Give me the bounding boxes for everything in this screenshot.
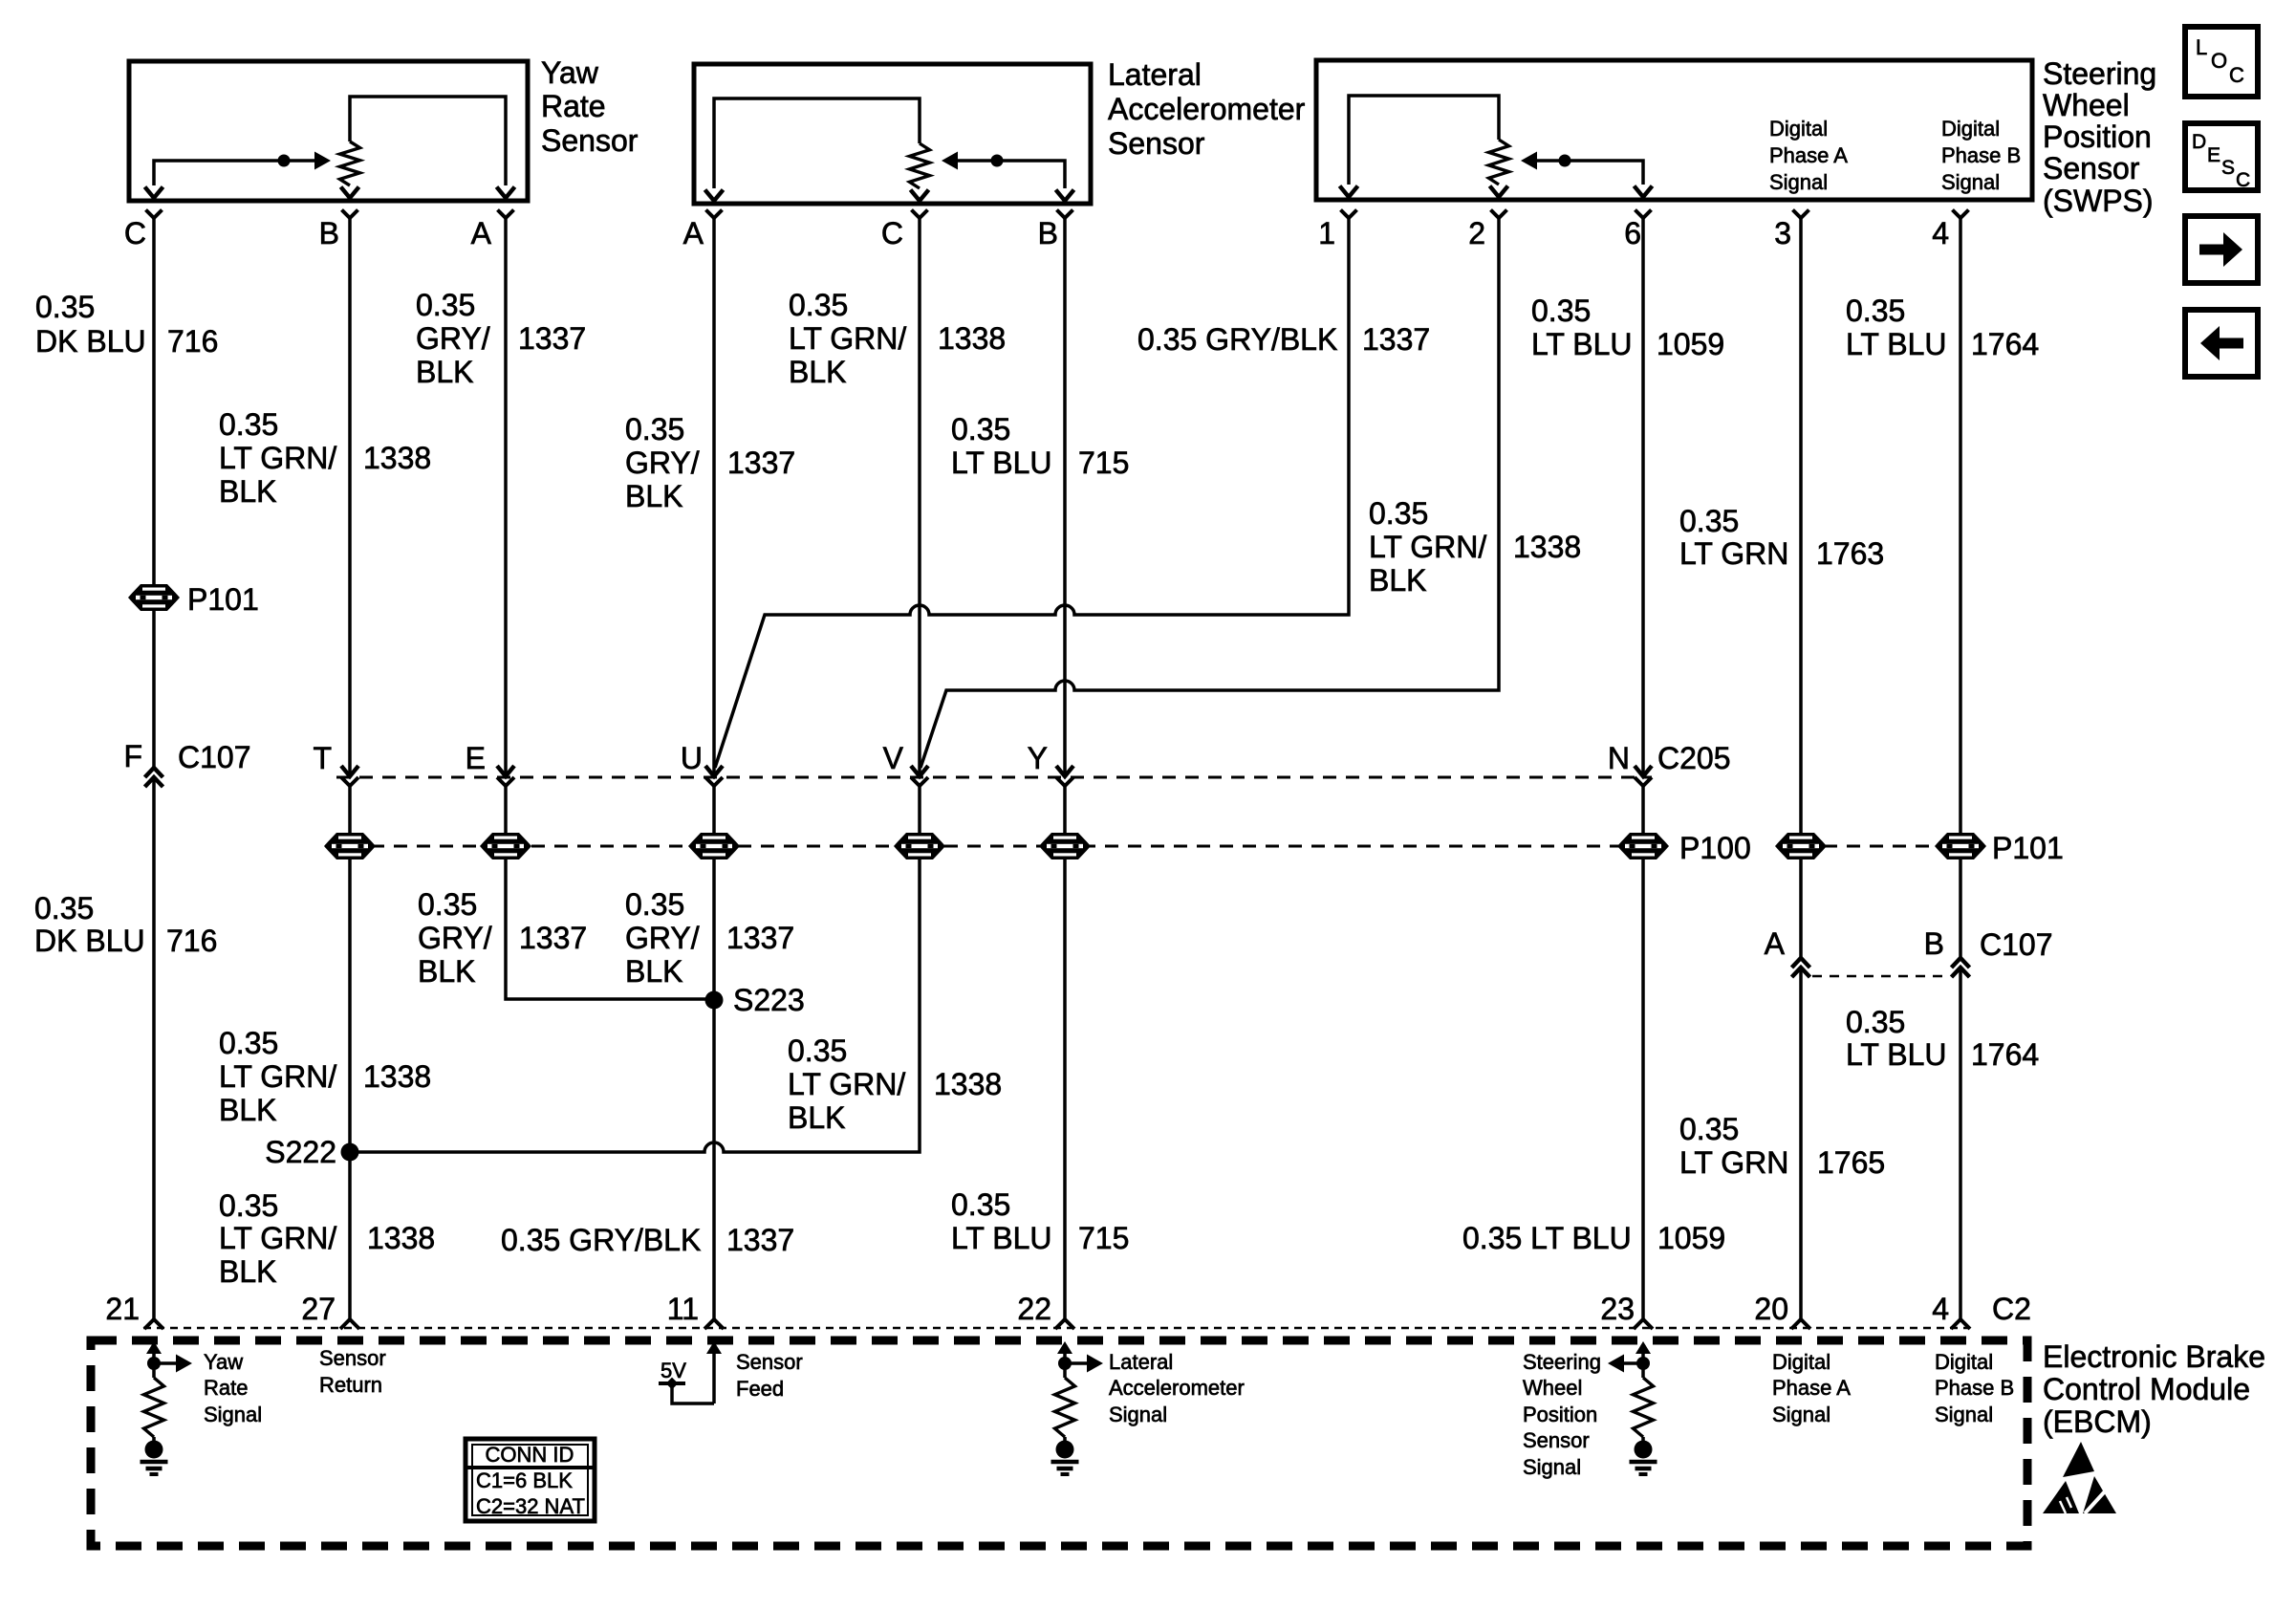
yaw pin A connector (471, 210, 514, 251)
svg-text:LT BLU: LT BLU (1531, 327, 1633, 361)
wire 1337 upper (lateral A to C205 U) (712, 218, 716, 776)
EBCM pin 23 connector (1600, 1292, 1653, 1329)
lateral sensor wiper arrow (942, 152, 958, 170)
grommet P101 lower (wire 4) (1935, 833, 1986, 859)
svg-text:B: B (1038, 216, 1058, 250)
5V terminal (659, 1378, 685, 1390)
yaw sensor wiper wire (154, 161, 314, 185)
svg-text:LT GRN: LT GRN (1679, 1145, 1788, 1180)
right-arrow legend box (2185, 216, 2258, 283)
svg-text:Signal: Signal (1772, 1403, 1830, 1426)
EBCM digital phase A signal label (1772, 1350, 1851, 1426)
svg-text:Sensor: Sensor (1523, 1428, 1590, 1452)
C107 dashed line lower (1812, 975, 1948, 978)
svg-text:C107: C107 (178, 740, 251, 774)
svg-text:27: 27 (301, 1292, 336, 1326)
svg-text:Yaw: Yaw (204, 1350, 243, 1374)
svg-text:1059: 1059 (1657, 327, 1724, 361)
EBCM pin 23 dot (1635, 1441, 1653, 1459)
svg-text:BLK: BLK (416, 355, 473, 389)
SWPS digital phase B signal label (1941, 117, 2021, 194)
svg-text:(SWPS): (SWPS) (2043, 184, 2154, 218)
grommet on wire V (894, 833, 945, 859)
wire 715 upper (lateral B to C205 Y) (1063, 218, 1067, 776)
svg-text:BLK: BLK (625, 954, 682, 989)
svg-text:Accelerometer: Accelerometer (1108, 92, 1306, 126)
svg-text:0.35: 0.35 (219, 1026, 278, 1060)
svg-text:F: F (123, 739, 142, 773)
grommet dashed line (325, 845, 1939, 848)
svg-text:CONN ID: CONN ID (486, 1443, 574, 1467)
svg-text:B: B (319, 216, 339, 250)
svg-text:O: O (2211, 49, 2227, 73)
EBCM pin 20 connector (1754, 1292, 1810, 1329)
wire 716 upper (yaw C to C107) (152, 218, 156, 767)
wire 715 lower (C205 Y to EBCM 22) (1063, 785, 1067, 1319)
EBCM pin 22 input wire (1057, 1341, 1072, 1378)
svg-text:1059: 1059 (1657, 1221, 1725, 1255)
label 0.35 LT GRN/BLK 1338 (wire 27 upper) (219, 1026, 431, 1127)
svg-text:716: 716 (166, 924, 217, 958)
svg-text:C: C (2236, 169, 2250, 191)
svg-text:P100: P100 (1679, 831, 1751, 865)
svg-text:Digital: Digital (1772, 1350, 1830, 1374)
svg-text:Digital: Digital (1935, 1350, 1993, 1374)
svg-text:715: 715 (1078, 446, 1129, 480)
svg-text:1337: 1337 (727, 446, 795, 480)
wire 1337 jumper from SWPS pin 1 to C205 U (715, 218, 1349, 768)
svg-text:E: E (466, 741, 486, 775)
svg-text:BLK: BLK (789, 355, 846, 389)
wire 1764 upper (SWPS 4 down) (1959, 218, 1962, 958)
svg-text:0.35: 0.35 (625, 412, 684, 446)
yaw rate signal label (204, 1350, 262, 1426)
svg-text:4: 4 (1932, 1292, 1949, 1326)
svg-text:0.35: 0.35 (1369, 496, 1428, 531)
svg-text:LT BLU: LT BLU (951, 1221, 1052, 1255)
svg-text:0.35 LT BLU: 0.35 LT BLU (1462, 1221, 1632, 1255)
svg-text:0.35: 0.35 (34, 891, 94, 925)
yaw sensor pin A arrow (497, 187, 515, 199)
wire 1059 lower (C205 N to EBCM 23) (1641, 785, 1645, 1319)
C205 label (1657, 741, 1731, 775)
svg-text:Sensor: Sensor (319, 1346, 386, 1370)
svg-text:C1=6 BLK: C1=6 BLK (476, 1469, 573, 1492)
svg-text:0.35: 0.35 (35, 290, 95, 324)
lateral sensor pin B arrow (1056, 190, 1074, 202)
EBCM pin 23 resistor lead (1641, 1437, 1645, 1443)
SWPS label (2043, 56, 2156, 218)
svg-text:Sensor: Sensor (2043, 151, 2140, 185)
svg-text:Phase B: Phase B (1935, 1376, 2014, 1400)
svg-text:LT GRN/: LT GRN/ (1369, 530, 1486, 564)
label 0.35 LT GRN/BLK 1338 (wire V mid) (788, 1033, 1002, 1135)
svg-text:Signal: Signal (1941, 170, 2000, 194)
svg-text:0.35: 0.35 (416, 288, 475, 322)
yaw sensor resistor (340, 141, 360, 185)
svg-text:1337: 1337 (726, 921, 794, 955)
svg-text:GRY/: GRY/ (416, 321, 490, 356)
svg-text:715: 715 (1078, 1221, 1129, 1255)
svg-text:0.35: 0.35 (219, 407, 278, 442)
svg-text:C: C (2229, 63, 2244, 87)
svg-text:Position: Position (1523, 1403, 1597, 1426)
svg-text:U: U (681, 741, 703, 775)
svg-text:1338: 1338 (938, 321, 1006, 356)
svg-text:3: 3 (1774, 216, 1791, 250)
LOC legend box (2185, 27, 2258, 97)
svg-text:0.35: 0.35 (1531, 294, 1591, 328)
svg-text:Phase A: Phase A (1772, 1376, 1851, 1400)
lateral sensor resistor arrow pin C (911, 190, 929, 202)
label 0.35 GRY/BLK 1337 (lateral A) (625, 412, 795, 513)
EBCM pin 22 connector (1017, 1292, 1074, 1329)
svg-text:V: V (883, 741, 904, 775)
svg-text:1338: 1338 (1513, 530, 1581, 564)
wire 1338 jumper from SWPS pin 2 to C205 V (921, 218, 1499, 768)
svg-text:0.35: 0.35 (951, 412, 1010, 446)
svg-text:1764: 1764 (1971, 327, 2039, 361)
lateral sensor resistor (910, 143, 930, 188)
svg-text:Steering: Steering (2043, 56, 2156, 91)
svg-text:22: 22 (1017, 1292, 1051, 1326)
EBCM pin 27 connector (301, 1292, 359, 1329)
EBCM pin 11 connector (667, 1292, 724, 1329)
EBCM dashed box (91, 1340, 2027, 1546)
svg-text:0.35: 0.35 (219, 1188, 278, 1223)
wire 1338 upper (lateral C to C205 V) (918, 218, 921, 776)
label 0.35 DK BLU 716 upper (35, 290, 218, 359)
C107 pin A connector (1792, 958, 1810, 977)
grommet on wire E (480, 833, 531, 859)
SWPS pin 1 arrow (1340, 186, 1358, 198)
svg-text:DK BLU: DK BLU (34, 924, 145, 958)
svg-text:Digital: Digital (1769, 117, 1828, 141)
svg-text:0.35: 0.35 (625, 887, 684, 922)
svg-text:GRY/: GRY/ (625, 921, 700, 955)
svg-text:C2=32 NAT: C2=32 NAT (476, 1494, 585, 1518)
svg-text:Sensor: Sensor (1108, 126, 1205, 161)
svg-text:Electronic Brake: Electronic Brake (2043, 1339, 2265, 1374)
label 0.35 LT BLU 715 (lateral B) (951, 412, 1129, 480)
EBCM digital phase B signal label (1935, 1350, 2014, 1426)
svg-text:Signal: Signal (1523, 1455, 1581, 1479)
svg-text:0.35: 0.35 (789, 288, 848, 322)
C107 pin B label (1924, 926, 2053, 962)
svg-text:Wheel: Wheel (2043, 88, 2130, 122)
svg-text:0.35 GRY/BLK: 0.35 GRY/BLK (1137, 322, 1337, 357)
svg-text:Position: Position (2043, 120, 2152, 154)
SWPS wiper arrow (1521, 152, 1537, 170)
grommet P101 upper (wire 716) (128, 584, 180, 611)
svg-text:0.35: 0.35 (418, 887, 477, 922)
svg-text:0.35: 0.35 (1679, 1112, 1739, 1146)
EBCM label (2043, 1339, 2265, 1439)
C2 label (1992, 1292, 2031, 1326)
C107 connector pin F (145, 768, 163, 787)
lateral accelerometer sensor box (694, 64, 1091, 204)
svg-text:1338: 1338 (934, 1067, 1002, 1101)
label 0.35 LT GRN/BLK 1338 (SWPS 2) (1369, 496, 1581, 598)
svg-text:BLK: BLK (219, 1254, 276, 1289)
grommet on wire U (688, 833, 740, 859)
C205 dashed line (336, 776, 1652, 779)
lateral sensor pin A arrow (705, 190, 724, 202)
svg-text:S223: S223 (733, 983, 805, 1017)
svg-text:LT BLU: LT BLU (1846, 327, 1947, 361)
svg-text:21: 21 (105, 1292, 140, 1326)
label 0.35 LT BLU 1764 lower (wire 4) (1846, 1005, 2039, 1072)
EBCM pin 21 connector (105, 1292, 163, 1329)
SWPS inner hat wire (1349, 96, 1499, 185)
EBCM pin 22 resistor lead (1063, 1437, 1067, 1443)
svg-text:C: C (881, 216, 903, 250)
svg-text:1764: 1764 (1971, 1037, 2039, 1072)
label 0.35 LT BLU 1059 (wire 23) (1462, 1221, 1725, 1255)
svg-text:S: S (2221, 157, 2235, 179)
svg-text:(EBCM): (EBCM) (2043, 1404, 2152, 1439)
label 0.35 LT GRN/BLK 1338 (lateral C) (789, 288, 1006, 389)
wire 1059 upper (SWPS 6 to C205 N) (1641, 218, 1645, 776)
svg-text:1337: 1337 (1362, 322, 1430, 357)
label 0.35 DK BLU 716 lower (34, 891, 217, 958)
yaw rate sensor label (541, 55, 639, 158)
label 0.35 LT BLU 1059 (SWPS 6) (1531, 294, 1724, 361)
svg-text:2: 2 (1468, 216, 1485, 250)
C107 pin B connector (1952, 958, 1970, 977)
SWPS pin 6 connector (1624, 210, 1651, 251)
svg-text:Return: Return (319, 1373, 382, 1397)
C107 pin F label (123, 739, 250, 774)
EBCM pin 21 resistor (144, 1378, 164, 1437)
lateral sensor wiper dot (991, 155, 1004, 167)
EBCM pin 23 input wire (1635, 1341, 1651, 1378)
svg-text:C: C (124, 216, 146, 250)
label 0.35 GRY/BLK 1337 (wire U mid) (625, 887, 794, 989)
EBCM pin 23 resistor (1634, 1378, 1654, 1437)
svg-text:Signal: Signal (1935, 1403, 1993, 1426)
svg-text:0.35 GRY/BLK: 0.35 GRY/BLK (501, 1223, 701, 1257)
svg-text:BLK: BLK (219, 474, 276, 509)
svg-text:Sensor: Sensor (736, 1350, 803, 1374)
svg-text:Wheel: Wheel (1523, 1376, 1582, 1400)
svg-text:716: 716 (167, 324, 218, 359)
EBCM pin 22 ground (1051, 1462, 1079, 1474)
svg-text:1765: 1765 (1817, 1145, 1885, 1180)
grommet P100 label (1679, 831, 1751, 865)
svg-text:LT BLU: LT BLU (951, 446, 1052, 480)
DESC legend box (2185, 123, 2258, 191)
svg-text:Sensor: Sensor (541, 123, 639, 158)
SWPS resistor (1489, 140, 1509, 185)
EBCM pin 21 dot (145, 1441, 163, 1459)
svg-text:BLK: BLK (1369, 563, 1426, 598)
svg-text:S222: S222 (265, 1135, 336, 1169)
C205 pin V connector (883, 741, 928, 786)
svg-text:1: 1 (1318, 216, 1335, 250)
steering wheel position sensor box (1316, 60, 2032, 200)
SWPS pin 4 connector (1932, 210, 1968, 251)
EBCM pin 21 resistor lead (152, 1437, 156, 1443)
svg-text:Lateral: Lateral (1108, 57, 1202, 92)
SWPS pin 6 arrow (1635, 186, 1653, 198)
yaw sensor wiper arrow (314, 152, 331, 170)
yaw sensor wiper dot (278, 155, 291, 167)
svg-text:T: T (313, 741, 332, 775)
grommet on wire Y (1039, 833, 1091, 859)
EBCM pin 23 ground (1630, 1462, 1657, 1474)
svg-text:1338: 1338 (367, 1221, 435, 1255)
svg-text:1337: 1337 (518, 321, 586, 356)
svg-text:1763: 1763 (1816, 536, 1884, 571)
svg-text:BLK: BLK (418, 954, 475, 989)
C205 pin T connector (313, 741, 358, 786)
wire 1338 upper (yaw B to C205 T) (348, 218, 352, 776)
svg-text:C205: C205 (1657, 741, 1731, 775)
label 0.35 LT BLU 1764 upper (wire 4) (1846, 294, 2039, 361)
svg-text:P101: P101 (1992, 831, 2064, 865)
lateral pin B connector (1038, 210, 1073, 251)
grommet P100 (wire N) (1617, 833, 1669, 859)
SWPS pin 2 connector (1468, 210, 1506, 251)
ESD sensitivity symbol (2043, 1442, 2116, 1513)
svg-text:L: L (2196, 35, 2207, 59)
svg-text:BLK: BLK (788, 1100, 845, 1135)
wire 1338 mid (C205 V to S222) (350, 785, 920, 1152)
svg-text:6: 6 (1624, 216, 1641, 250)
svg-text:20: 20 (1754, 1292, 1788, 1326)
svg-text:11: 11 (667, 1292, 699, 1326)
svg-text:N: N (1608, 741, 1630, 775)
svg-text:Digital: Digital (1941, 117, 2000, 141)
svg-text:GRY/: GRY/ (625, 446, 700, 480)
EBCM SWPS signal arrow (1608, 1355, 1650, 1373)
SWPS pin 3 connector (1774, 210, 1809, 251)
EBCM yaw rate signal arrow (147, 1355, 192, 1373)
wire 716 lower (C107 F to EBCM 21) (152, 777, 156, 1319)
C107 pin A label (1765, 926, 1786, 961)
svg-text:1337: 1337 (519, 921, 587, 955)
wire 1763 (SWPS 3 down) (1799, 218, 1803, 958)
wire 1337 mid (C205 E to S223) (506, 785, 714, 999)
yaw pin B connector (319, 210, 358, 251)
sensor feed label (736, 1350, 803, 1401)
C205 pin U connector (681, 741, 723, 786)
label 0.35 LT GRN 1765 (wire 20) (1679, 1112, 1885, 1180)
svg-text:B: B (1924, 926, 1944, 961)
wire 1763 lower (C107 A to EBCM 20) (1799, 968, 1803, 1319)
svg-text:Accelerometer: Accelerometer (1109, 1376, 1245, 1400)
label 0.35 GRY/BLK 1337 (wire E mid) (418, 887, 587, 989)
C205 pin Y connector (1028, 741, 1073, 786)
C205 pin E connector (466, 741, 514, 786)
label 0.35 GRY/BLK 1337 (wire 11) (501, 1223, 794, 1257)
yaw pin C connector (124, 210, 162, 251)
label 0.35 LT GRN/BLK 1338 (yaw B) (219, 407, 431, 509)
sensor return label (319, 1346, 386, 1397)
svg-text:Control Module: Control Module (2043, 1372, 2250, 1406)
EBCM lateral accel signal arrow (1058, 1355, 1103, 1373)
SWPS resistor arrow pin 2 (1490, 186, 1508, 198)
svg-text:0.35: 0.35 (1846, 294, 1905, 328)
svg-text:LT GRN: LT GRN (1679, 536, 1788, 571)
label 0.35 LT GRN/BLK 1338 (wire 27 lower) (219, 1188, 435, 1289)
svg-text:Phase A: Phase A (1769, 143, 1848, 167)
svg-text:C107: C107 (1980, 927, 2053, 962)
grommet P101 upper label (187, 582, 259, 617)
svg-text:Feed: Feed (736, 1377, 784, 1401)
lateral accelerometer signal label (1109, 1350, 1245, 1426)
svg-text:0.35: 0.35 (1679, 504, 1739, 538)
SWPS pin 1 connector (1318, 210, 1356, 251)
svg-text:DK BLU: DK BLU (35, 324, 146, 359)
svg-text:Steering: Steering (1523, 1350, 1601, 1374)
svg-text:Phase B: Phase B (1941, 143, 2021, 167)
svg-text:Y: Y (1028, 741, 1048, 775)
EBCM pin 22 resistor (1055, 1378, 1075, 1437)
EBCM pin 21 input wire (146, 1341, 162, 1378)
svg-text:BLK: BLK (625, 479, 682, 513)
svg-text:0.35: 0.35 (788, 1033, 847, 1068)
yaw sensor resistor arrow pin B (341, 187, 359, 199)
svg-text:LT GRN/: LT GRN/ (219, 1221, 336, 1255)
SWPS digital phase A signal label (1769, 117, 1848, 194)
lateral pin C connector (881, 210, 928, 251)
wire 1337 upper (yaw A to C205 E) (504, 218, 508, 776)
svg-text:LT BLU: LT BLU (1846, 1037, 1947, 1072)
svg-text:Yaw: Yaw (541, 55, 599, 90)
SWPS wiper wire (1527, 161, 1643, 185)
splice S223 (705, 983, 805, 1017)
C205 pin N connector (1608, 741, 1652, 786)
svg-text:4: 4 (1932, 216, 1949, 250)
svg-text:0.35: 0.35 (951, 1187, 1010, 1222)
EBCM pin 11 sensor feed wire (672, 1341, 722, 1403)
yaw rate sensor box (129, 61, 528, 201)
svg-text:Rate: Rate (204, 1376, 248, 1400)
lateral sensor wiper wire (947, 161, 1065, 188)
EBCM pin 22 dot (1056, 1441, 1074, 1459)
lateral accelerometer label (1108, 57, 1306, 161)
label 0.35 GRY/BLK 1337 (SWPS 1) (1137, 322, 1430, 357)
svg-text:Signal: Signal (1769, 170, 1828, 194)
steering wheel position sensor signal label (1523, 1350, 1601, 1479)
svg-text:A: A (471, 216, 492, 250)
EBCM C2 dotted line (143, 1327, 1969, 1330)
svg-text:C2: C2 (1992, 1292, 2031, 1326)
svg-text:LT GRN/: LT GRN/ (788, 1067, 905, 1101)
grommet on wire T (324, 833, 376, 859)
label 0.35 LT GRN 1763 (wire 3) (1679, 504, 1884, 571)
svg-text:Signal: Signal (204, 1403, 262, 1426)
EBCM pin 21 ground (141, 1462, 168, 1474)
wire 1337 lower (C205 U to EBCM 11) (712, 785, 716, 1319)
svg-text:Rate: Rate (541, 89, 606, 123)
svg-text:A: A (1765, 926, 1786, 961)
wire 1338 mid (C205 T to EBCM 27) (348, 785, 352, 1319)
left-arrow legend box (2185, 310, 2258, 377)
lateral sensor inner hat wire (714, 98, 920, 188)
svg-text:LT GRN/: LT GRN/ (219, 1059, 336, 1094)
svg-text:1337: 1337 (726, 1223, 794, 1257)
svg-text:A: A (683, 216, 704, 250)
svg-text:E: E (2207, 144, 2220, 166)
yaw sensor inner hat wire (350, 97, 506, 185)
svg-text:1338: 1338 (363, 441, 431, 475)
svg-text:5V: 5V (661, 1359, 686, 1382)
svg-text:23: 23 (1600, 1292, 1635, 1326)
5V label (661, 1359, 686, 1382)
